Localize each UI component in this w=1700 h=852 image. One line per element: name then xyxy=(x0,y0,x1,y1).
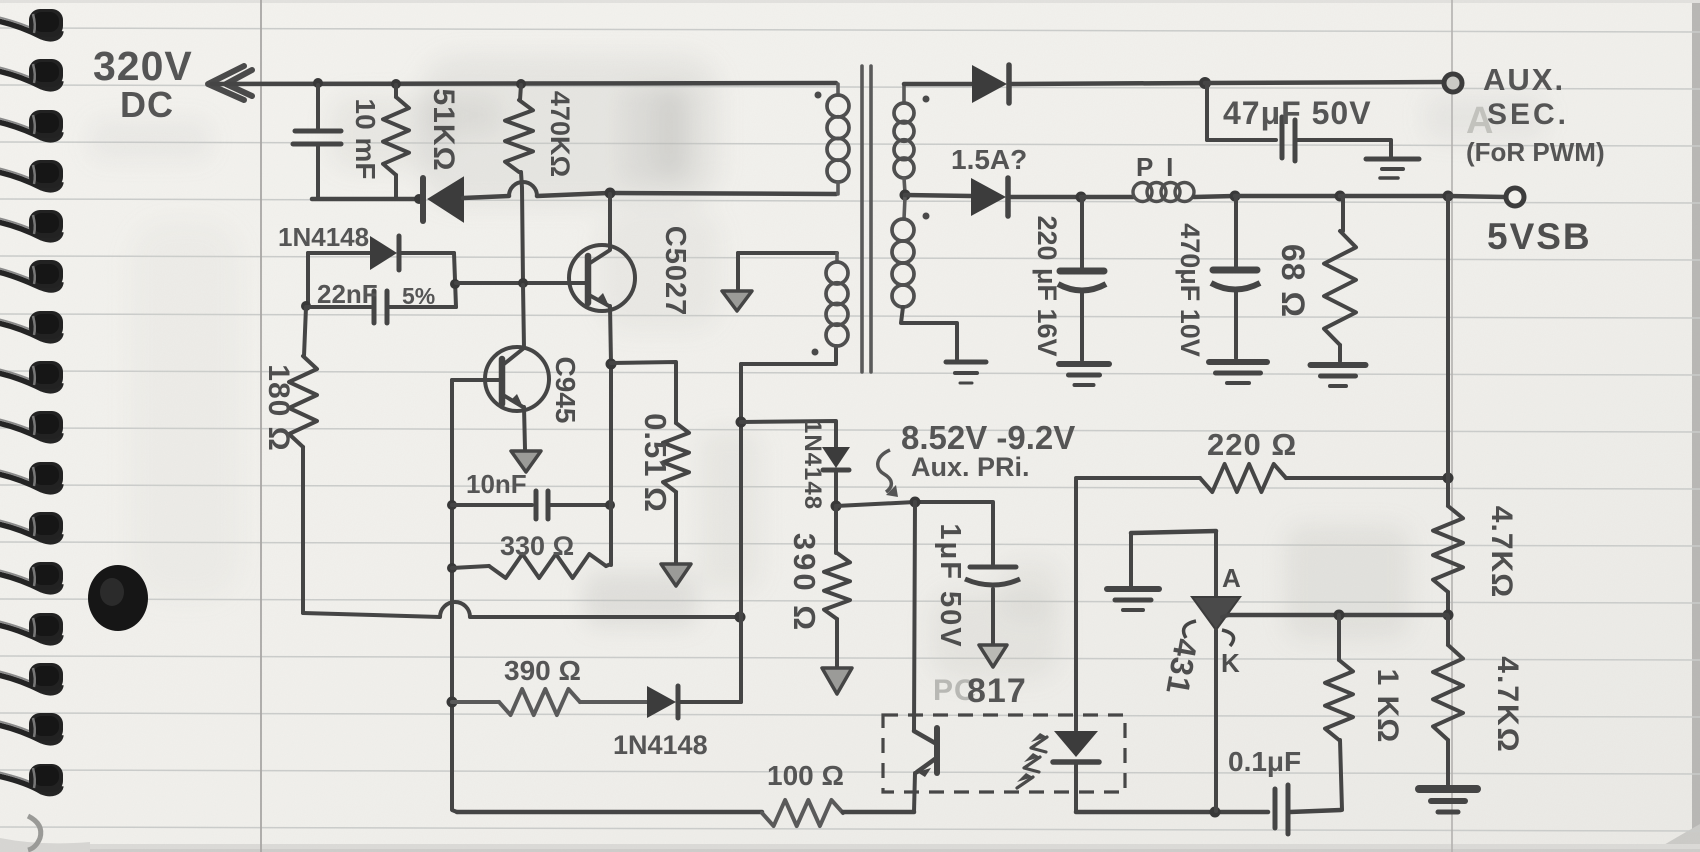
transformer core xyxy=(862,66,871,372)
node junction 470K top xyxy=(516,79,526,89)
capacitor 10nF xyxy=(452,491,610,519)
phase dot secondary top xyxy=(923,96,930,103)
svg-text:220 Ω: 220 Ω xyxy=(1207,427,1297,462)
resistor 4.7K upper xyxy=(1433,478,1463,614)
wire 220 to 5VSB rail xyxy=(1286,476,1447,480)
node junction 51K top xyxy=(391,79,401,89)
node junction divider xyxy=(1443,610,1454,621)
label SEC ghost A xyxy=(1466,100,1494,142)
diode D4 aux xyxy=(972,65,1204,103)
inductor primary top winding xyxy=(827,84,849,194)
diode opto LED xyxy=(1053,480,1099,812)
label FOR PWM xyxy=(1466,137,1605,167)
transistor opto phototransistor xyxy=(914,728,937,812)
label 1N4148 top xyxy=(278,222,369,252)
wire bottom rail mid xyxy=(843,810,914,815)
wire 22nF loop left edge xyxy=(306,253,310,306)
inductor secondary bottom winding xyxy=(892,197,914,307)
spiral binding xyxy=(0,21,61,39)
transistor Q1 C5027 xyxy=(569,194,635,363)
ground 47uF xyxy=(1366,159,1419,178)
svg-text:47μF 50V: 47μF 50V xyxy=(1223,95,1372,131)
svg-text:5%: 5% xyxy=(402,283,435,309)
svg-text:8.52V -9.2V: 8.52V -9.2V xyxy=(901,419,1075,456)
capacitor 22nF xyxy=(308,291,456,323)
capacitor 470uF xyxy=(1211,198,1260,358)
node junction 220/4.7K xyxy=(1443,473,1454,484)
label C945 xyxy=(550,357,581,424)
svg-text:P I: P I xyxy=(1136,152,1176,182)
pin A label xyxy=(1222,563,1242,593)
smudges xyxy=(90,55,1545,680)
diode D1 320V side xyxy=(423,178,509,221)
label 1uF 50V xyxy=(934,523,966,648)
label PI xyxy=(1136,152,1176,182)
node junction 330 left xyxy=(447,563,457,573)
wire to PI xyxy=(1081,195,1133,200)
arrow return 390 xyxy=(822,668,852,694)
node junction secondary mid xyxy=(900,190,911,201)
label 220 xyxy=(1207,427,1297,462)
label 470K xyxy=(545,91,575,177)
svg-text:Aux. PRi.: Aux. PRi. xyxy=(911,452,1030,482)
node junction 470uF xyxy=(1230,191,1241,202)
resistor 330 xyxy=(452,554,611,578)
wire aux pri node xyxy=(836,502,993,564)
resistor 51K xyxy=(383,85,409,198)
wire C945 base xyxy=(452,378,501,382)
svg-text:0.1μF: 0.1μF xyxy=(1228,746,1301,777)
node junction 5VSB xyxy=(1443,191,1454,202)
arrow return 0.51 xyxy=(661,564,691,586)
node junction 180 top xyxy=(301,301,311,311)
label 220uF 16V xyxy=(1032,215,1062,356)
ground 220uF xyxy=(1059,364,1109,385)
svg-text:C5027: C5027 xyxy=(659,226,691,316)
svg-text:0.51 Ω: 0.51 Ω xyxy=(638,413,673,513)
wire 180 bottom run xyxy=(303,613,440,617)
capacitor 0.1uF xyxy=(1275,785,1341,834)
node junction 68 xyxy=(1335,191,1346,202)
terminal 5VSB xyxy=(1506,188,1524,206)
capacitor 47uF xyxy=(1207,85,1391,161)
svg-text:5VSB: 5VSB xyxy=(1487,216,1592,257)
label 1N4148 bottom xyxy=(613,730,708,760)
svg-text:1N4148: 1N4148 xyxy=(613,730,708,760)
phase dot primary top xyxy=(815,92,822,99)
svg-text:68 Ω: 68 Ω xyxy=(1275,244,1311,318)
svg-text:817: 817 xyxy=(967,672,1027,710)
wire secondary top rail xyxy=(904,82,972,87)
wire return arrow row xyxy=(738,251,837,255)
svg-text:K: K xyxy=(1221,648,1241,678)
ground 470uF xyxy=(1209,362,1267,383)
label 68 xyxy=(1275,244,1311,318)
wire hop at 470K xyxy=(509,182,836,196)
label 470uF 10V xyxy=(1175,223,1205,357)
node junction 431 bottom xyxy=(1210,807,1221,818)
diode D3 1N4148 vertical xyxy=(822,447,850,505)
resistor 390 vertical xyxy=(824,506,850,667)
svg-text:1N4148: 1N4148 xyxy=(799,420,826,510)
svg-text:C945: C945 xyxy=(550,357,581,424)
label SEC xyxy=(1487,98,1569,131)
capacitor 220uF xyxy=(1058,198,1106,360)
wire 431 anode top xyxy=(1131,531,1216,586)
capacitor 1uF xyxy=(965,567,1020,644)
arrow curly to node xyxy=(878,450,898,497)
svg-text:320V: 320V xyxy=(93,43,193,89)
node junction base wire xyxy=(450,279,460,289)
wire 431 ref xyxy=(1222,615,1229,617)
node junction opto collector xyxy=(910,497,921,508)
ground 4.7K xyxy=(1419,789,1477,812)
label Aux PRi xyxy=(911,452,1030,482)
arrow to 320V DC xyxy=(208,66,252,100)
label 4.7K lower xyxy=(1491,656,1524,753)
svg-text:330 Ω: 330 Ω xyxy=(500,531,574,561)
svg-text:(FoR PWM): (FoR PWM) xyxy=(1466,137,1605,167)
resistor 180 xyxy=(289,307,317,613)
ground 68 xyxy=(1311,365,1366,386)
pin K label xyxy=(1221,648,1241,678)
svg-text:4.7KΩ: 4.7KΩ xyxy=(1485,506,1518,598)
label 1K xyxy=(1371,669,1404,744)
wire 5VSB vertical xyxy=(1446,196,1450,478)
svg-text:220 μF 16V: 220 μF 16V xyxy=(1032,215,1062,356)
wire 470K to base node xyxy=(522,188,523,283)
svg-text:SEC.: SEC. xyxy=(1487,98,1569,131)
svg-text:51KΩ: 51KΩ xyxy=(427,88,460,171)
label 10nF xyxy=(466,469,527,499)
label 10mF xyxy=(350,99,381,180)
margin line right xyxy=(1451,0,1453,852)
node junction 10nF left xyxy=(447,500,457,510)
wire top rail 320V xyxy=(212,83,836,84)
svg-text:AUX.: AUX. xyxy=(1483,62,1565,97)
node junction 10mF top xyxy=(313,78,323,88)
svg-text:1μF 50V: 1μF 50V xyxy=(934,523,966,648)
svg-text:180 Ω: 180 Ω xyxy=(262,364,295,451)
label C5027 xyxy=(659,226,691,316)
label 4.7K upper xyxy=(1485,506,1518,598)
label 8.52V-9.2V xyxy=(901,419,1075,456)
svg-text:1 KΩ: 1 KΩ xyxy=(1371,669,1404,744)
node junction C945 collector xyxy=(518,278,528,288)
diode D2 1N4148 xyxy=(370,236,454,270)
label 390 vertical xyxy=(787,533,822,633)
node junction 390v top xyxy=(831,501,842,512)
optocoupler PC817 box xyxy=(883,715,1125,792)
wire base node to C5027 xyxy=(456,281,587,285)
label 22nF xyxy=(317,279,378,309)
wire winding to vertical xyxy=(741,346,836,364)
node junction right vertical xyxy=(735,612,746,623)
node 320V DC label xyxy=(93,43,193,125)
ruled lines xyxy=(0,28,1700,32)
arrow return 1uF xyxy=(979,645,1007,667)
svg-text:470KΩ: 470KΩ xyxy=(545,91,575,177)
label 0.1uF xyxy=(1228,746,1301,777)
wire 10mF-51K bottom xyxy=(312,194,424,204)
svg-text:10 mF: 10 mF xyxy=(350,99,381,180)
resistor 390 horizontal xyxy=(452,689,647,715)
label 100 xyxy=(767,760,844,791)
inductor PI xyxy=(1133,183,1194,202)
svg-text:390 Ω: 390 Ω xyxy=(504,655,581,686)
inductor primary bottom winding xyxy=(826,253,848,346)
node junction 1K top xyxy=(1334,610,1345,621)
label 0.51 xyxy=(638,413,673,513)
margin line left xyxy=(260,0,262,852)
wire opto collector xyxy=(914,502,915,731)
label 47uF 50V xyxy=(1223,95,1372,131)
node junction 220uF xyxy=(1076,192,1087,203)
resistor 1K xyxy=(1325,615,1353,810)
label 51K xyxy=(427,88,460,171)
wire to 68 xyxy=(1235,194,1339,199)
terminal AUX xyxy=(1444,74,1462,92)
resistor 100 xyxy=(762,800,843,826)
wire ref row xyxy=(1229,613,1447,618)
phase dot primary bottom xyxy=(812,349,819,356)
node junction 10nF right xyxy=(605,500,615,510)
svg-text:A: A xyxy=(1222,563,1242,593)
svg-text:470μF 10V: 470μF 10V xyxy=(1175,223,1205,357)
paper bottom right corner shade xyxy=(1652,824,1700,852)
ground secondary xyxy=(946,362,986,383)
ic U1 TL431 xyxy=(1184,531,1240,811)
node junction emitter xyxy=(606,359,617,370)
resistor 0.51 xyxy=(663,423,689,563)
wire PI to 470uF xyxy=(1194,196,1234,197)
label 390 horizontal xyxy=(504,655,581,686)
label 431 xyxy=(1159,636,1204,698)
wire right vertical rail xyxy=(739,364,743,702)
label 817 xyxy=(967,672,1027,710)
svg-text:1N4148: 1N4148 xyxy=(278,222,369,252)
label 330 xyxy=(500,531,574,561)
svg-text:22nF: 22nF xyxy=(317,279,378,309)
diode D6 1N4148 bottom xyxy=(647,686,741,718)
wire bottom rail left xyxy=(457,810,762,815)
wire to vertical 1N4148 xyxy=(741,421,836,447)
arrow return C945 emitter xyxy=(511,451,541,472)
svg-text:DC: DC xyxy=(120,84,174,125)
ground 431 ref xyxy=(1107,589,1159,610)
label AUX xyxy=(1483,62,1565,97)
wire to 5VSB terminal xyxy=(1448,196,1505,197)
label 180 xyxy=(262,364,295,451)
svg-text:100 Ω: 100 Ω xyxy=(767,760,844,791)
wire 220 row xyxy=(1076,476,1200,480)
diode D5 1.5A xyxy=(971,178,1079,216)
node junction 1N4148 feed xyxy=(736,417,747,428)
label 1N4148 vertical xyxy=(799,420,826,510)
resistor 470K xyxy=(505,85,533,188)
node junction C5027 collector xyxy=(605,188,616,199)
inductor secondary top winding xyxy=(894,84,914,193)
svg-text:4.7KΩ: 4.7KΩ xyxy=(1491,656,1524,753)
wire left vertical rail xyxy=(452,380,457,812)
resistor 4.7K lower xyxy=(1433,616,1463,786)
label 5VSB xyxy=(1487,216,1592,257)
wire bottom rail right xyxy=(1076,810,1268,815)
label 5% xyxy=(402,283,435,309)
wire emitter to 0.51 xyxy=(611,362,676,423)
svg-text:390 Ω: 390 Ω xyxy=(787,533,822,633)
svg-text:1.5A?: 1.5A? xyxy=(951,144,1027,175)
light arrows opto xyxy=(1017,733,1047,788)
hole punch xyxy=(28,816,41,850)
node junction 47uF xyxy=(1199,77,1211,89)
wire secondary bottom to gnd xyxy=(901,307,957,360)
wire to 5VSB node xyxy=(1340,194,1447,199)
label PC ghost xyxy=(933,674,977,707)
label 1.5A xyxy=(951,144,1027,175)
wire 22nF loop right edge xyxy=(454,253,456,307)
phase dot secondary bottom xyxy=(923,213,930,220)
transistor Q2 C945 xyxy=(485,285,549,449)
capacitor 10mF xyxy=(293,85,341,198)
wire 22nF loop top xyxy=(308,251,370,255)
wire hop over vertical xyxy=(440,602,739,617)
resistor 68 xyxy=(1324,197,1356,361)
resistor 220 xyxy=(1200,464,1286,492)
wire to AUX terminal xyxy=(1205,82,1443,83)
svg-text:10nF: 10nF xyxy=(466,469,527,499)
arrow return primary xyxy=(722,253,752,311)
wire emitter vertical xyxy=(609,364,613,565)
node junction 390 left xyxy=(447,697,458,708)
wire secondary mid xyxy=(905,195,971,196)
